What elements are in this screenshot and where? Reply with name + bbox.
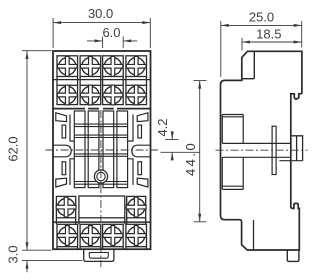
lower-right ear rib (128, 159, 133, 185)
latch tail bar (272, 126, 276, 174)
label-row right screw (126, 197, 146, 217)
center screw hole (94, 170, 107, 183)
svg-text:6.0: 6.0 (102, 25, 120, 40)
front view body outline (53, 51, 151, 249)
bottom terminal cells (57, 224, 147, 246)
horizontal centerline front view (46, 149, 159, 151)
label-row left screw (56, 197, 76, 217)
terminal stack lower block (222, 157, 243, 189)
terminal screw bottom col4 (126, 226, 146, 246)
dim 44.0 (183, 81, 207, 222)
upper-left ear flap (56, 113, 67, 122)
terminal screw bottom col3 (103, 226, 123, 246)
terminal screw bottom col2 (81, 226, 101, 246)
pin ladder columns (74, 111, 127, 188)
terminal screw row2 col1 (57, 85, 77, 105)
terminal screw row2 col4 (126, 85, 146, 105)
upper-right ear flap (137, 113, 148, 122)
bottom section divider line (53, 221, 151, 223)
terminal screw row1 col4 (126, 56, 146, 76)
terminal stack upper block (222, 115, 243, 144)
dim 30.0 (53, 6, 150, 48)
bottom tab inner (89, 253, 108, 259)
inner wall line bottom-left (253, 220, 255, 250)
svg-text:4.2: 4.2 (155, 118, 170, 136)
ladder center band lines (74, 154, 127, 156)
terminal screw row2 col2 (81, 85, 101, 105)
label-row left cell (56, 196, 75, 217)
upper-right ear slot (138, 125, 142, 138)
svg-text:3.0: 3.0 (5, 245, 20, 263)
dim 25.0 (221, 9, 302, 77)
latch block (291, 136, 303, 161)
terminal screw bottom col1 (57, 226, 77, 246)
ladder lower rungs (74, 182, 127, 185)
wall connectors label row to divider (56, 218, 145, 225)
svg-text:44.0: 44.0 (183, 141, 198, 176)
dim 4.2 (155, 118, 200, 160)
bottom tab outer (84, 249, 114, 261)
side view body outline (221, 51, 302, 250)
latch bar top line (222, 142, 290, 144)
latch bar bottom line (222, 156, 290, 158)
terminal screw row1 col1 (57, 56, 77, 76)
side view centerline (216, 149, 308, 151)
terminal screw row2 col3 (103, 85, 123, 105)
dim 62.0 (6, 51, 52, 251)
left centerline slot (53, 145, 71, 157)
dim 6.0 (87, 25, 137, 48)
svg-text:18.5: 18.5 (256, 26, 281, 41)
right centerline slot (132, 145, 151, 157)
label plate (79, 196, 125, 218)
lower-left ear flap (56, 178, 67, 187)
wall connectors bottom row to body bottom (57, 247, 147, 250)
svg-text:30.0: 30.0 (88, 6, 113, 21)
label-row right cell (127, 196, 146, 217)
terminal cell row2 (57, 85, 147, 104)
upper-right ear rib (128, 115, 133, 142)
top terminal section bottom line (53, 108, 151, 110)
terminal screw row1 col3 (103, 56, 123, 76)
ladder rung row 2 (74, 135, 127, 137)
terminal cell row1 (57, 56, 147, 77)
upper-left ear rib (70, 115, 74, 142)
terminal screw row1 col2 (81, 56, 101, 76)
dim 3.0 (5, 245, 82, 272)
svg-text:62.0: 62.0 (6, 136, 21, 161)
flange inner vertical (253, 51, 255, 78)
vertical centerline front view (100, 110, 102, 267)
terminal cell wall connectors between rows (57, 77, 147, 86)
lower-left ear rib (70, 159, 74, 185)
dim 18.5 (242, 26, 302, 50)
flange bottom edge (242, 78, 255, 80)
ladder upper rungs (74, 124, 127, 127)
DIN rail foot (287, 250, 299, 261)
svg-text:25.0: 25.0 (249, 9, 274, 24)
divider line between terminal rows (53, 79, 151, 81)
latch block bottom line (279, 160, 302, 162)
lower-left ear slot (62, 162, 66, 175)
lower-right ear slot (138, 162, 142, 175)
lower-right ear flap (137, 178, 148, 187)
upper-left ear slot (62, 125, 66, 138)
